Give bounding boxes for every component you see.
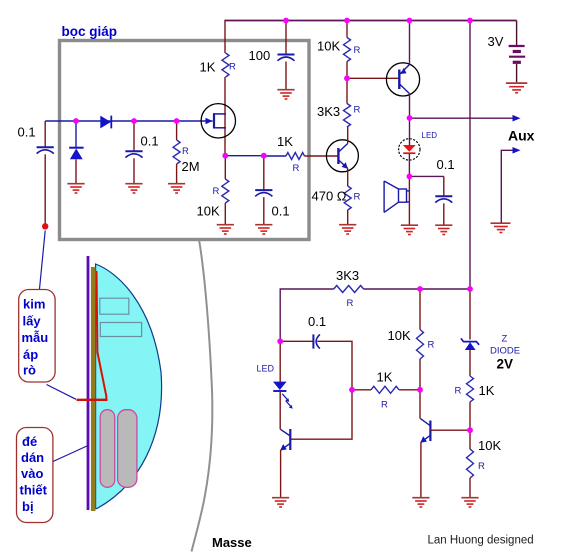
wire node E to R9 <box>352 389 371 391</box>
resistor R2 10K <box>344 38 351 62</box>
wire long vertical net <box>469 20 471 289</box>
wire Q3 emitter to ground <box>280 450 282 497</box>
svg-text:R: R <box>213 186 220 197</box>
capacitor C1 100 <box>278 55 295 61</box>
svg-text:Masse: Masse <box>212 535 252 550</box>
svg-text:2M: 2M <box>182 159 200 174</box>
ground D2 <box>67 184 84 193</box>
wire battery top stem <box>516 21 518 46</box>
JFET U1 <box>201 104 235 138</box>
label de dan vao thiet bi <box>20 434 48 514</box>
wire drop to 10K <box>346 20 348 38</box>
capacitor C4 0.1 stem <box>263 156 265 190</box>
resistor R5 10K <box>222 179 229 203</box>
svg-text:R: R <box>455 386 462 397</box>
svg-text:2V: 2V <box>497 357 514 372</box>
label kim lay mau ap ro <box>22 297 49 378</box>
wire 1K to JFET drain <box>224 77 226 156</box>
svg-text:3K3: 3K3 <box>317 104 340 119</box>
ground C1 <box>277 90 294 99</box>
zener D2 stem <box>75 121 77 148</box>
svg-text:10K: 10K <box>197 204 220 219</box>
Masse shield curve <box>192 240 213 552</box>
wire Q2 collector up <box>347 127 349 144</box>
resistor R3 3K3 <box>344 104 351 127</box>
ground C4 <box>255 225 272 234</box>
capacitor C1 100 stem <box>285 20 287 54</box>
ground 2M <box>168 184 185 193</box>
wire R5 to ground <box>224 203 226 224</box>
resistor R4 2M <box>173 140 180 164</box>
callout line 2 <box>47 385 77 400</box>
wire C2 to probe dot <box>44 154 46 226</box>
svg-text:LED: LED <box>422 131 438 140</box>
svg-text:mẫu: mẫu <box>22 330 49 345</box>
svg-text:1K: 1K <box>277 134 293 149</box>
wire R12 to ground <box>469 478 471 497</box>
wire drop to 1K (left) <box>224 20 226 53</box>
wire node C to C5 <box>409 175 443 177</box>
wire R10 to node F <box>419 359 421 390</box>
wire 10K to node B1 <box>346 62 348 104</box>
ground Q4 <box>412 498 429 507</box>
wire LED to node C <box>408 154 410 177</box>
wire zener stem <box>469 289 471 340</box>
capacitor C6 0.1 left lead <box>280 340 313 342</box>
capacitor C2 0.1 input stem <box>44 121 46 147</box>
wire node F to Q4 collector <box>419 390 421 419</box>
svg-text:rò: rò <box>23 363 36 378</box>
svg-text:Lan Huong designed: Lan Huong designed <box>428 535 534 547</box>
probe needle tick <box>77 399 108 401</box>
svg-text:3V: 3V <box>488 34 504 49</box>
wire R7 to ground <box>347 210 349 224</box>
transistor Q3 NPN <box>280 429 290 451</box>
capacitor C3 0.1 <box>125 151 142 157</box>
ground R12 <box>461 498 478 507</box>
wire C5 top stem <box>443 176 445 196</box>
wire node G to R12 <box>469 430 471 449</box>
svg-text:Aux: Aux <box>508 128 535 144</box>
wire R6 to Q2 base <box>305 155 339 157</box>
wire 2M to ground <box>176 164 178 183</box>
svg-text:áp: áp <box>23 347 38 362</box>
wire R9 to node F <box>399 389 420 391</box>
wire Q1 emitter up <box>409 20 411 65</box>
callout line 3 <box>53 446 88 462</box>
svg-text:0.1: 0.1 <box>141 134 159 149</box>
wire C4 to ground <box>263 197 265 224</box>
transistor Q1 PNP <box>386 63 419 96</box>
svg-text:1K: 1K <box>377 370 393 385</box>
junction dots top <box>73 18 473 180</box>
shield box (boc giap) <box>60 41 310 240</box>
wire speaker drop <box>408 176 410 224</box>
probe face purple strip <box>87 256 90 510</box>
wire Q1 collector down <box>409 94 411 145</box>
wire R8 to right <box>364 288 470 290</box>
ground C5 <box>435 225 452 234</box>
svg-text:3K3: 3K3 <box>336 268 359 283</box>
svg-text:lấy: lấy <box>23 314 42 329</box>
svg-text:0.1: 0.1 <box>18 125 36 140</box>
svg-text:Z: Z <box>502 334 508 345</box>
wire node D to LED <box>279 341 281 382</box>
wire signal input run <box>45 120 212 122</box>
callout line 1 <box>40 231 46 290</box>
probe inner rect 2 <box>100 323 141 337</box>
resistor R6 1K horizontal lead <box>264 155 286 157</box>
ground Q3 <box>272 498 289 507</box>
svg-text:bọc giáp: bọc giáp <box>62 24 118 39</box>
svg-text:0.1: 0.1 <box>308 314 326 329</box>
wire top rail <box>225 20 517 22</box>
svg-text:R: R <box>354 105 361 116</box>
probe body cyan <box>96 264 162 509</box>
svg-text:0.1: 0.1 <box>272 204 290 219</box>
wire lower rail <box>280 289 334 341</box>
wire Q1 base <box>347 77 399 79</box>
svg-text:đé: đé <box>22 434 37 449</box>
svg-text:0.1: 0.1 <box>437 157 455 172</box>
svg-text:1K: 1K <box>200 60 216 75</box>
resistor R6 1K <box>286 153 305 160</box>
ground R5 <box>217 225 234 234</box>
resistor R1 1K <box>222 53 229 77</box>
LED D4 (blue) <box>273 382 293 409</box>
callout box de dan vao thiet bi <box>17 428 53 523</box>
svg-text:R: R <box>478 461 485 472</box>
ground speaker <box>401 225 418 234</box>
probe capsule 2 <box>118 410 137 488</box>
wire Q2 emitter to R7 <box>347 168 349 186</box>
probe adhesive olive strip <box>91 267 96 511</box>
probe capsule 1 <box>100 410 115 488</box>
svg-text:100: 100 <box>249 48 271 63</box>
wire C3 to ground <box>133 158 135 183</box>
svg-text:10K: 10K <box>317 39 340 54</box>
wire C6 to Q3 base <box>291 341 352 439</box>
resistor R12 10K <box>467 449 474 478</box>
capacitor C5 0.1 <box>435 196 452 202</box>
arrow Aux 2 <box>513 147 521 154</box>
capacitor C2 0.1 <box>37 147 54 153</box>
resistor R9 1K <box>371 386 399 393</box>
zener D5 2V <box>461 338 479 350</box>
resistor R7 470 <box>344 186 351 210</box>
callout box kim lay mau ap ro <box>19 290 55 383</box>
resistor R8 3K3 <box>334 286 364 293</box>
LED D3 (red) <box>399 139 420 160</box>
resistor R10 10K stem <box>419 289 421 330</box>
wire Aux 1 <box>410 117 515 119</box>
wire D2 to ground <box>75 159 77 183</box>
svg-text:vào: vào <box>21 466 43 481</box>
ground R7 <box>339 225 356 234</box>
svg-text:R: R <box>182 146 189 157</box>
svg-text:R: R <box>354 45 361 56</box>
svg-text:DIODE: DIODE <box>490 346 520 357</box>
capacitor C3 0.1 stem <box>133 121 135 151</box>
resistor R10 10K <box>417 330 424 360</box>
speaker SP1 <box>384 181 409 212</box>
wire zener to R11 <box>469 350 471 376</box>
junction dots lower <box>277 286 473 433</box>
ground battery <box>506 83 527 93</box>
svg-text:1K: 1K <box>479 383 495 398</box>
battery BT1 3V <box>509 46 526 62</box>
svg-text:dán: dán <box>21 450 44 465</box>
svg-text:thiết: thiết <box>20 483 48 498</box>
svg-text:R: R <box>381 400 388 411</box>
wire C1 to ground <box>285 62 287 90</box>
wire LED to Q3 collector <box>279 391 281 429</box>
svg-text:R: R <box>229 62 236 73</box>
resistor R5 10K stem <box>224 156 226 179</box>
svg-text:kim: kim <box>23 297 45 312</box>
ground C3 <box>125 184 142 193</box>
arrow Aux 1 <box>513 115 521 122</box>
capacitor C6 0.1 <box>313 334 320 348</box>
transistor Q4 NPN <box>420 419 430 443</box>
wire battery bottom stem <box>516 64 518 82</box>
svg-text:10K: 10K <box>388 328 411 343</box>
probe inner rect 1 <box>100 298 129 314</box>
zener D2 <box>69 148 83 160</box>
wire Aux 2 <box>501 150 514 222</box>
wire Q4 emitter to ground <box>420 442 422 497</box>
svg-text:R: R <box>293 163 300 174</box>
svg-text:LED: LED <box>257 364 275 374</box>
resistor R11 1K <box>467 376 474 402</box>
node probe (red dot) <box>42 223 48 229</box>
svg-text:10K: 10K <box>478 438 501 453</box>
svg-text:R: R <box>354 192 361 203</box>
transistor Q2 NPN <box>326 140 358 172</box>
capacitor C4 0.1 <box>255 190 272 196</box>
resistor R4 2M stem <box>176 121 178 140</box>
diode D1 <box>100 116 111 129</box>
svg-text:470 Ω: 470 Ω <box>312 189 347 204</box>
wire Q4 base to node G <box>430 429 470 431</box>
wire R11 to node G <box>469 402 471 430</box>
wire C5 to ground <box>443 203 445 224</box>
svg-text:R: R <box>428 340 435 351</box>
probe needle (kim) <box>97 271 107 399</box>
svg-text:bị: bị <box>22 499 34 514</box>
svg-text:R: R <box>347 298 354 309</box>
node source junction <box>225 155 263 157</box>
ground Aux 2 <box>491 223 511 232</box>
